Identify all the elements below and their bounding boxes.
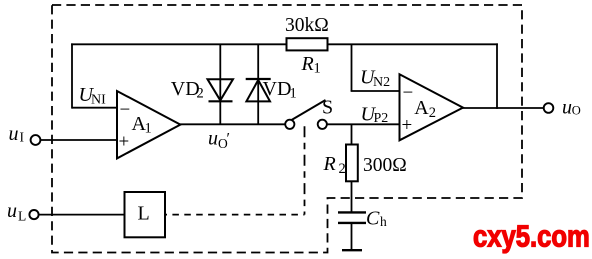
op-amp A2 <box>400 74 464 140</box>
svg-text:−: − <box>120 100 131 121</box>
svg-text:C: C <box>366 207 380 229</box>
svg-text:+: + <box>119 132 130 153</box>
wire UN2 tap vertical <box>351 44 353 91</box>
input terminal uI <box>31 135 41 145</box>
switch S right contact <box>318 120 327 129</box>
svg-text:′: ′ <box>227 131 231 148</box>
wire R2 to capacitor <box>351 181 353 211</box>
svg-text:L: L <box>138 203 150 225</box>
label uO <box>562 97 581 119</box>
svg-text:u: u <box>7 200 17 222</box>
diode VD1 <box>246 44 271 124</box>
label R2 <box>323 153 346 177</box>
label UN2 <box>360 66 390 89</box>
wire uI to A1 + input <box>41 139 117 141</box>
input terminal uL <box>29 210 38 219</box>
svg-text:2: 2 <box>197 86 204 102</box>
wire A1 inverting input <box>72 107 117 109</box>
output terminal uO <box>544 103 554 113</box>
svg-text:30kΩ: 30kΩ <box>285 15 329 36</box>
svg-text:300Ω: 300Ω <box>363 155 407 176</box>
wire UN2 to A2 inverting input <box>351 90 400 92</box>
label uO' <box>208 127 230 151</box>
label UNI <box>79 84 107 108</box>
wire A1 output to switch <box>180 123 285 125</box>
wire feedback vertical right <box>496 43 498 109</box>
svg-text:VD: VD <box>263 78 292 100</box>
svg-text:1: 1 <box>314 61 321 77</box>
wire top feedback to R1 <box>71 43 286 45</box>
dashed control line L to switch vertical <box>304 126 306 214</box>
svg-text:u: u <box>9 123 19 145</box>
svg-text:R: R <box>323 153 336 175</box>
wire switch to A2 + input <box>327 123 400 125</box>
svg-text:NI: NI <box>91 93 106 108</box>
svg-text:2: 2 <box>339 161 346 177</box>
switch S left contact <box>285 120 294 129</box>
svg-text:u: u <box>208 127 218 149</box>
svg-text:1: 1 <box>145 120 152 136</box>
capacitor Ch <box>338 212 366 250</box>
svg-text:h: h <box>380 214 387 229</box>
svg-text:cxy5.com: cxy5.com <box>473 219 590 253</box>
svg-text:u: u <box>562 97 572 119</box>
svg-text:+: + <box>402 115 413 136</box>
diode VD2 <box>208 44 234 124</box>
svg-text:VD: VD <box>171 78 200 100</box>
outer dashed boundary <box>52 5 522 253</box>
wire feedback vertical left <box>71 43 73 108</box>
svg-text:I: I <box>20 130 25 145</box>
svg-text:N2: N2 <box>373 75 390 90</box>
label R1 <box>301 53 321 76</box>
op-amp A1 <box>117 91 180 158</box>
label Ch <box>366 207 387 229</box>
switch S blade <box>292 100 326 120</box>
svg-text:A: A <box>414 97 429 119</box>
label VD2 <box>171 78 204 102</box>
svg-text:S: S <box>322 97 333 119</box>
resistor R1 <box>287 38 328 50</box>
label uL <box>7 200 26 224</box>
svg-text:O: O <box>572 103 581 117</box>
svg-text:1: 1 <box>290 86 297 102</box>
wire A2 output <box>462 107 544 109</box>
svg-text:R: R <box>301 53 314 75</box>
svg-text:2: 2 <box>429 105 436 121</box>
label VD1 <box>263 78 297 102</box>
resistor R2 <box>346 145 358 182</box>
dashed control line L to switch horizontal <box>165 214 305 216</box>
wire R1 to feedback corner <box>328 43 498 45</box>
wire uL to block L <box>39 214 125 216</box>
svg-text:−: − <box>403 83 414 104</box>
logic block L <box>125 192 166 237</box>
label UP2 <box>361 103 389 126</box>
svg-text:L: L <box>18 209 26 224</box>
wire R2 tap vertical <box>351 124 353 144</box>
